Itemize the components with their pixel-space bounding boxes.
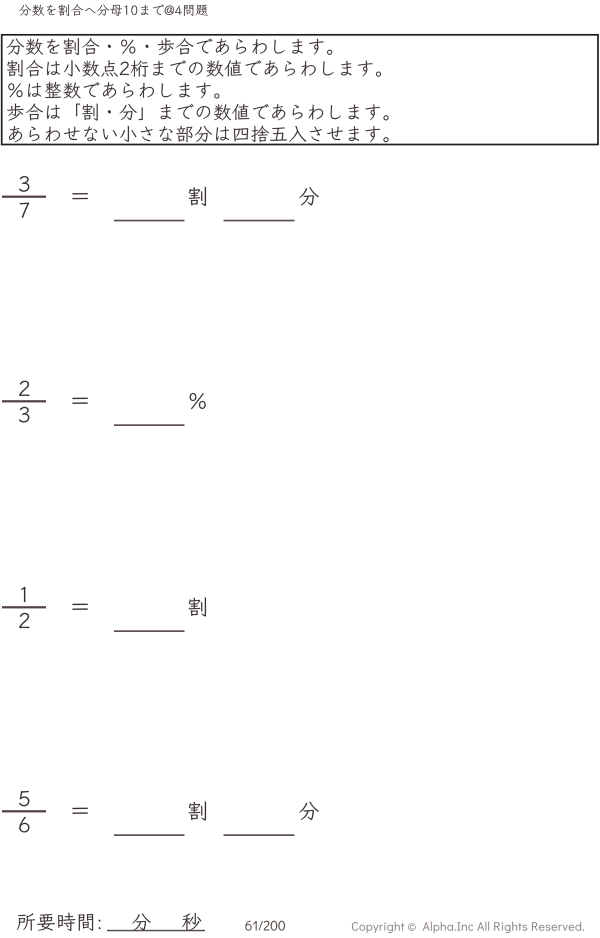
problem 1 fraction bar (2, 196, 46, 198)
instruction line 2 (7, 60, 381, 77)
problem 1 unit label wari (189, 187, 206, 206)
problem 2 numerator 2 (19, 381, 29, 396)
problem 4 answer blank 1 (114, 834, 185, 836)
footer time blank underline (107, 930, 205, 932)
footer time-required label (17, 913, 101, 931)
worksheet title (19, 4, 208, 16)
problem 4 equals sign (72, 808, 87, 814)
problem 4 answer blank 2 (224, 834, 295, 836)
instruction line 1 (7, 38, 332, 55)
problem 1 unit label bu (299, 187, 319, 205)
problem 3 unit label wari (189, 597, 206, 616)
instruction line 3 (8, 82, 219, 99)
instruction box border (2, 35, 598, 145)
copyright notice (352, 922, 584, 933)
problem 2 answer blank 1 (114, 424, 185, 426)
problem 2 fraction bar (2, 400, 46, 402)
instruction line 5 (9, 126, 389, 143)
problem 4 unit label wari (189, 801, 206, 820)
problem 4 denominator 6 (19, 817, 29, 833)
problem 4 fraction bar (2, 810, 46, 812)
problem 2 unit label percent (190, 393, 206, 409)
problem 2 denominator 3 (19, 407, 29, 423)
problem 3 answer blank 1 (114, 630, 185, 632)
problem 3 numerator 1 (21, 587, 26, 602)
problem 1 answer blank 2 (224, 220, 295, 222)
problem 4 numerator 5 (19, 791, 29, 806)
problem 3 fraction bar (2, 606, 46, 608)
problem 1 equals sign (72, 193, 87, 199)
problem 1 answer blank 1 (114, 220, 185, 222)
problem 1 numerator 3 (19, 176, 29, 192)
problem 3 equals sign (72, 604, 87, 610)
page number 61/200 (245, 921, 285, 931)
problem 2 equals sign (72, 398, 87, 404)
problem 3 denominator 2 (19, 613, 29, 628)
problem 4 unit label bu (299, 802, 319, 820)
footer seconds unit (182, 913, 201, 931)
footer minutes unit (132, 913, 150, 930)
instruction line 4 (7, 104, 388, 121)
problem 1 denominator 7 (20, 203, 30, 218)
